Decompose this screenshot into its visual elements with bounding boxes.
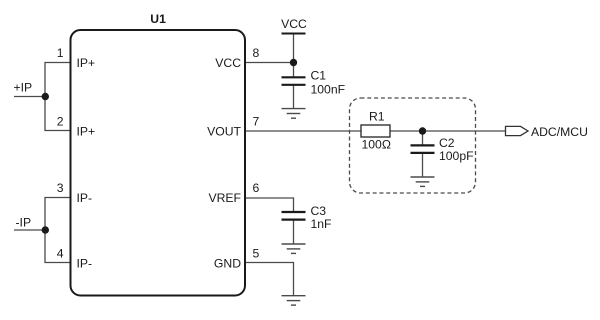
svg-text:R1: R1	[369, 110, 385, 124]
svg-text:U1: U1	[150, 12, 166, 26]
svg-text:C3: C3	[311, 204, 327, 218]
svg-text:IP-: IP-	[77, 256, 93, 270]
svg-text:-IP: -IP	[16, 216, 32, 230]
svg-text:2: 2	[57, 115, 64, 129]
svg-text:IP+: IP+	[77, 125, 96, 139]
svg-text:5: 5	[253, 247, 260, 261]
svg-text:1nF: 1nF	[311, 217, 332, 231]
svg-text:IP-: IP-	[77, 191, 93, 205]
svg-text:8: 8	[253, 46, 260, 60]
svg-text:VCC: VCC	[215, 56, 241, 70]
svg-text:VCC: VCC	[281, 17, 307, 31]
svg-text:ADC/MCU: ADC/MCU	[531, 125, 588, 139]
svg-text:6: 6	[253, 181, 260, 195]
svg-text:IP+: IP+	[77, 56, 96, 70]
svg-text:4: 4	[57, 247, 64, 261]
svg-text:100nF: 100nF	[311, 83, 346, 97]
svg-text:3: 3	[57, 181, 64, 195]
svg-text:GND: GND	[214, 256, 241, 270]
svg-text:C1: C1	[311, 69, 327, 83]
svg-text:VOUT: VOUT	[207, 125, 241, 139]
svg-text:VREF: VREF	[208, 191, 241, 205]
svg-text:100pF: 100pF	[439, 149, 474, 163]
svg-text:C2: C2	[439, 136, 455, 150]
svg-text:1: 1	[57, 46, 64, 60]
svg-text:+IP: +IP	[14, 81, 33, 95]
svg-text:100Ω: 100Ω	[362, 138, 391, 152]
svg-text:7: 7	[253, 115, 260, 129]
